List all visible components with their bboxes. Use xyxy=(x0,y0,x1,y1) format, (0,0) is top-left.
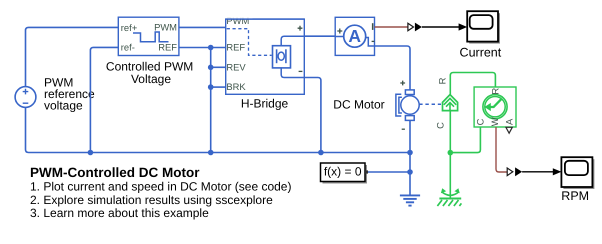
wire ref+ from source top to Controlled PWM Voltage xyxy=(26,27,119,86)
svg-text:R: R xyxy=(437,77,448,84)
svg-text:ref-: ref- xyxy=(121,42,135,53)
svg-text:H-Bridge: H-Bridge xyxy=(241,97,289,111)
rotor circle xyxy=(401,96,419,114)
wire ref- left then down to bus xyxy=(90,47,118,152)
wire motor - down to bus xyxy=(409,120,411,152)
wire PWM output to H-Bridge xyxy=(179,26,226,28)
physical signal W down then right xyxy=(496,127,507,172)
dashed PWM internal wire xyxy=(227,29,272,56)
junction motor at bus xyxy=(407,150,413,156)
svg-text:RPM: RPM xyxy=(561,189,589,203)
physical signal I to converter xyxy=(375,26,408,28)
svg-text:A: A xyxy=(504,118,515,125)
junction H-bridge minus at bus xyxy=(318,150,324,156)
junction bus/REF tie xyxy=(208,150,214,156)
solver configuration f(x)=0 xyxy=(321,163,369,184)
junction REV xyxy=(208,65,214,71)
svg-text:Voltage: Voltage xyxy=(131,72,171,86)
svg-text:ref+: ref+ xyxy=(121,22,138,33)
bottom terminal xyxy=(405,116,414,121)
wire sensor - to motor + xyxy=(375,46,411,90)
top terminal xyxy=(405,90,414,95)
svg-text:W: W xyxy=(489,117,500,126)
wire source bottom to ground bus xyxy=(26,107,411,152)
svg-text:2. Explore simulation results: 2. Explore simulation results using ssce… xyxy=(30,193,273,207)
wire H-Bridge + to current sensor xyxy=(304,35,335,37)
wire inertia C down to mechanical reference xyxy=(449,111,451,199)
signal line to RPM scope xyxy=(522,171,553,173)
inertia block (chevron) xyxy=(443,95,458,111)
Current scope block xyxy=(467,11,500,43)
svg-text:DC Motor: DC Motor xyxy=(333,98,384,112)
redraw top edge over PWM text xyxy=(227,14,253,18)
junction ref- at bus xyxy=(88,150,94,156)
wire sensor C to junction xyxy=(450,127,480,153)
svg-text:REF: REF xyxy=(158,41,177,52)
dashed shaft connection motor R xyxy=(419,103,441,105)
svg-text:REF: REF xyxy=(226,41,245,52)
svg-text:PWM-Controlled DC Motor: PWM-Controlled DC Motor xyxy=(30,165,200,180)
PS-Simulink converter (current) xyxy=(408,23,414,31)
motor - port mark xyxy=(402,128,405,130)
RPM scope block xyxy=(561,157,594,189)
wire solver to bus xyxy=(368,171,410,173)
wire vertical tie REF/REV/BRK to bus xyxy=(210,48,212,153)
mechanical rotational reference xyxy=(437,188,461,206)
unconnected port A triangle xyxy=(506,127,512,133)
wire BRK stub xyxy=(211,86,226,88)
svg-text:voltage: voltage xyxy=(44,99,83,113)
wire REF output to H-Bridge xyxy=(179,47,226,49)
junction BRK xyxy=(208,84,214,90)
svg-text:Current: Current xyxy=(460,46,502,60)
wire H-Bridge - down to bus xyxy=(304,78,321,153)
svg-text:A: A xyxy=(348,26,361,46)
svg-text:C: C xyxy=(475,118,486,125)
motor + port mark xyxy=(400,81,405,86)
controlled PWM voltage block xyxy=(118,17,179,55)
icon to - port xyxy=(281,67,304,77)
junction REF xyxy=(208,45,214,51)
brushes left xyxy=(396,94,401,116)
wire REV stub xyxy=(211,66,226,68)
H-Bridge block xyxy=(226,14,305,94)
icon to + port xyxy=(281,36,304,45)
ideal rotational motion sensor block xyxy=(474,87,516,127)
junction green xyxy=(448,150,454,156)
svg-text:BRK: BRK xyxy=(226,81,246,92)
svg-text:3. Learn more about this examp: 3. Learn more about this example xyxy=(30,206,209,220)
DC motor block xyxy=(396,90,419,121)
svg-text:R: R xyxy=(489,88,500,95)
electrical reference ground xyxy=(400,195,420,205)
svg-text:PWM: PWM xyxy=(154,22,177,33)
voltage source V1 circle xyxy=(15,87,36,108)
wire inertia R to motion sensor R xyxy=(450,73,495,95)
svg-text:1. Plot current and speed in D: 1. Plot current and speed in DC Motor (s… xyxy=(30,180,291,194)
PS-Simulink converter (RPM) xyxy=(507,168,513,176)
svg-text:REV: REV xyxy=(226,61,246,72)
wire bus to electrical reference xyxy=(409,153,411,196)
current sensor block xyxy=(335,17,374,55)
signal line to Current scope xyxy=(422,26,459,28)
svg-text:f(x) = 0: f(x) = 0 xyxy=(324,164,362,178)
inner icon xyxy=(273,46,291,68)
svg-text:C: C xyxy=(434,122,445,129)
junction solver wire xyxy=(407,169,413,175)
